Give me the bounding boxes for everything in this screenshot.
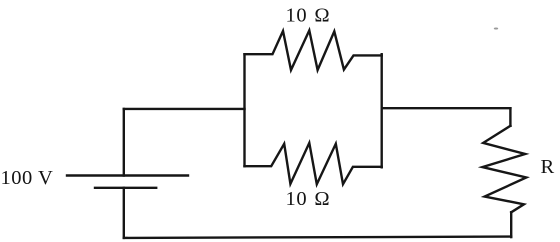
svg-text:R: R	[541, 156, 555, 178]
svg-text:10 Ω: 10 Ω	[286, 188, 331, 210]
wire right vertical lower stub	[510, 212, 512, 237]
wire right node vertical (node B)	[381, 54, 383, 167]
resistor R2 bottom 10 ohm zigzag	[245, 143, 382, 184]
scan speck artifact	[494, 28, 498, 30]
wire right vertical upper stub	[509, 108, 511, 126]
svg-text:10 Ω: 10 Ω	[286, 5, 331, 27]
battery B1 short plate (-)	[95, 187, 156, 189]
wire bottom horizontal	[124, 237, 511, 238]
resistor R vertical zigzag	[482, 126, 526, 213]
wire top-left horizontal (battery + to left node)	[124, 108, 245, 110]
svg-text:100 V: 100 V	[1, 167, 54, 189]
wire left node vertical (node A)	[243, 54, 245, 166]
wire left vertical lower (battery to bottom wire)	[123, 188, 125, 238]
resistor R1 top 10 ohm zigzag	[245, 30, 382, 70]
battery B1 long plate (+)	[67, 174, 188, 176]
wire left vertical upper (top wire to battery)	[123, 109, 125, 176]
wire top-right horizontal (right node to R)	[382, 107, 511, 109]
